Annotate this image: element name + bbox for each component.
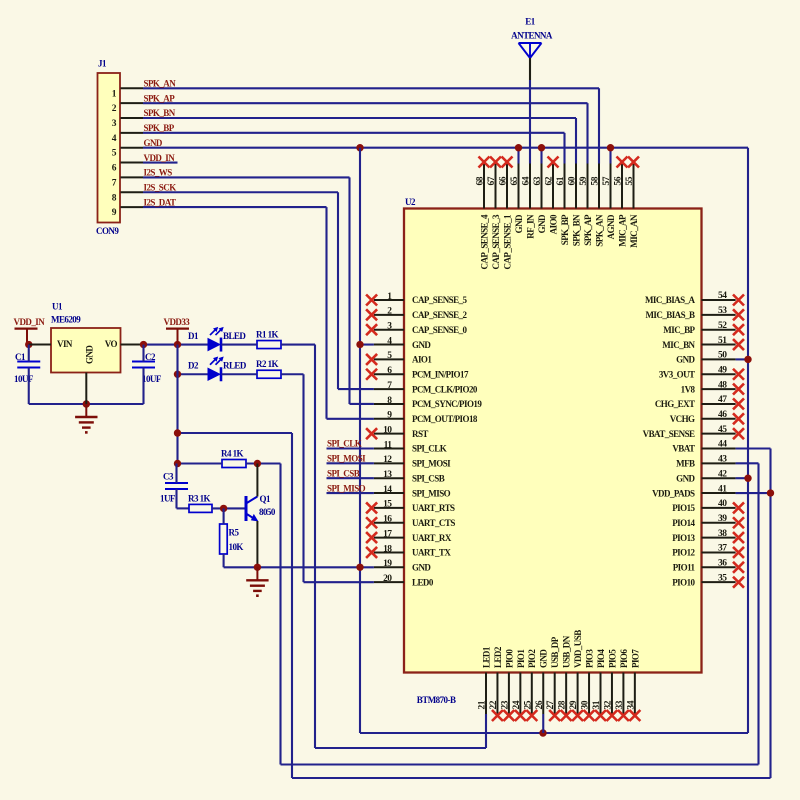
- svg-text:41: 41: [718, 484, 727, 494]
- svg-text:SPK_BN: SPK_BN: [571, 214, 581, 246]
- svg-text:UART_RTS: UART_RTS: [412, 503, 455, 513]
- svg-text:67: 67: [487, 176, 497, 185]
- svg-text:GND: GND: [85, 345, 95, 364]
- svg-text:34: 34: [626, 700, 636, 709]
- svg-text:8050: 8050: [259, 507, 276, 517]
- svg-text:25: 25: [523, 700, 533, 709]
- svg-text:CAP_SENSE_1: CAP_SENSE_1: [502, 214, 512, 270]
- svg-text:16: 16: [383, 515, 392, 525]
- svg-text:CAP_SENSE_2: CAP_SENSE_2: [412, 310, 468, 320]
- svg-text:28: 28: [558, 700, 568, 709]
- svg-text:48: 48: [718, 380, 727, 390]
- svg-text:PIO3: PIO3: [584, 649, 594, 668]
- svg-text:10UF: 10UF: [142, 374, 162, 384]
- svg-text:CAP_SENSE_4: CAP_SENSE_4: [479, 214, 489, 270]
- svg-text:VDD_USB: VDD_USB: [573, 630, 583, 668]
- svg-text:R3 1K: R3 1K: [188, 494, 211, 504]
- svg-text:PIO14: PIO14: [672, 518, 695, 528]
- svg-text:VDD_PADS: VDD_PADS: [652, 488, 695, 498]
- svg-text:52: 52: [718, 321, 727, 331]
- svg-text:PIO1: PIO1: [516, 649, 526, 668]
- svg-text:VBAT_SENSE: VBAT_SENSE: [643, 429, 695, 439]
- svg-text:GND: GND: [514, 214, 524, 233]
- svg-text:GND: GND: [537, 214, 547, 233]
- svg-text:R5: R5: [229, 528, 240, 538]
- svg-text:I2S_WS: I2S_WS: [144, 168, 173, 178]
- svg-text:VBAT: VBAT: [672, 444, 695, 454]
- svg-text:SPK_BN: SPK_BN: [144, 108, 176, 118]
- svg-text:24: 24: [512, 700, 522, 709]
- svg-text:AIO1: AIO1: [412, 355, 432, 365]
- svg-text:BTM870-B: BTM870-B: [417, 695, 456, 705]
- svg-text:10K: 10K: [229, 542, 244, 552]
- svg-text:17: 17: [383, 529, 392, 539]
- svg-text:64: 64: [522, 176, 532, 185]
- svg-text:LED0: LED0: [412, 577, 434, 587]
- svg-text:PIO11: PIO11: [673, 563, 696, 573]
- svg-text:11: 11: [384, 440, 393, 450]
- svg-text:UART_TX: UART_TX: [412, 548, 451, 558]
- svg-text:MIC_AN: MIC_AN: [629, 214, 639, 248]
- svg-text:GND: GND: [412, 340, 431, 350]
- svg-text:MIC_BIAS_A: MIC_BIAS_A: [645, 295, 696, 305]
- svg-text:21: 21: [478, 700, 488, 709]
- svg-text:RLED: RLED: [223, 360, 247, 370]
- svg-text:LED2: LED2: [493, 646, 503, 668]
- svg-text:27: 27: [546, 700, 556, 709]
- svg-text:SPI_MISO: SPI_MISO: [327, 483, 366, 493]
- svg-text:31: 31: [592, 700, 602, 709]
- svg-text:RST: RST: [412, 429, 428, 439]
- svg-text:PIO2: PIO2: [527, 649, 537, 668]
- svg-text:MIC_BN: MIC_BN: [662, 340, 695, 350]
- svg-text:E1: E1: [525, 17, 535, 27]
- svg-text:SPI_CLK: SPI_CLK: [412, 444, 447, 454]
- svg-text:RF_IN: RF_IN: [525, 214, 535, 239]
- svg-text:UART_CTS: UART_CTS: [412, 518, 455, 528]
- svg-text:AGND: AGND: [606, 214, 616, 239]
- svg-text:13: 13: [383, 470, 392, 480]
- svg-text:57: 57: [602, 176, 612, 185]
- svg-text:SPI_MOSI: SPI_MOSI: [412, 459, 451, 469]
- svg-text:61: 61: [556, 176, 566, 185]
- svg-text:CAP_SENSE_3: CAP_SENSE_3: [491, 214, 501, 270]
- svg-text:1V8: 1V8: [681, 384, 696, 394]
- svg-text:32: 32: [603, 700, 613, 709]
- svg-text:C1: C1: [15, 352, 26, 362]
- svg-text:PCM_CLK/PIO20: PCM_CLK/PIO20: [412, 384, 478, 394]
- svg-text:ANTENNA: ANTENNA: [511, 31, 553, 41]
- svg-text:47: 47: [718, 395, 727, 405]
- svg-text:15: 15: [383, 500, 392, 510]
- svg-text:I2S_DAT: I2S_DAT: [144, 197, 177, 207]
- svg-text:J1: J1: [98, 59, 107, 69]
- svg-text:MIC_AP: MIC_AP: [617, 214, 627, 247]
- svg-text:54: 54: [718, 291, 727, 301]
- svg-text:PIO7: PIO7: [630, 649, 640, 668]
- svg-text:U2: U2: [405, 197, 416, 207]
- svg-text:VDD_IN: VDD_IN: [144, 153, 176, 163]
- svg-text:33: 33: [615, 700, 625, 709]
- svg-text:C3: C3: [163, 472, 174, 482]
- svg-text:SPI_MISO: SPI_MISO: [412, 488, 451, 498]
- svg-text:55: 55: [625, 176, 635, 185]
- svg-text:I2S_SCK: I2S_SCK: [144, 182, 177, 192]
- svg-text:SPK_BP: SPK_BP: [560, 214, 570, 245]
- svg-text:CHG_EXT: CHG_EXT: [655, 399, 695, 409]
- svg-text:PIO4: PIO4: [596, 649, 606, 668]
- svg-text:USB_DN: USB_DN: [562, 635, 572, 668]
- svg-text:49: 49: [718, 365, 727, 375]
- svg-text:3V3_OUT: 3V3_OUT: [659, 369, 695, 379]
- svg-text:51: 51: [718, 336, 727, 346]
- svg-text:40: 40: [718, 499, 727, 509]
- svg-text:29: 29: [569, 700, 579, 709]
- svg-text:63: 63: [533, 176, 543, 185]
- svg-text:SPI_MOSI: SPI_MOSI: [327, 454, 366, 464]
- svg-text:PCM_SYNC/PIO19: PCM_SYNC/PIO19: [412, 399, 482, 409]
- svg-text:R4 1K: R4 1K: [221, 448, 244, 458]
- svg-text:PIO15: PIO15: [672, 503, 695, 513]
- svg-text:46: 46: [718, 410, 727, 420]
- svg-text:ME6209: ME6209: [51, 315, 81, 325]
- svg-text:PCM_IN/PIO17: PCM_IN/PIO17: [412, 369, 469, 379]
- svg-text:GND: GND: [144, 138, 163, 148]
- svg-text:35: 35: [718, 573, 727, 583]
- svg-text:53: 53: [718, 306, 727, 316]
- svg-text:AIO0: AIO0: [548, 214, 558, 234]
- svg-text:BLED: BLED: [223, 331, 246, 341]
- svg-text:PIO10: PIO10: [672, 577, 695, 587]
- svg-text:19: 19: [383, 559, 392, 569]
- svg-text:14: 14: [383, 485, 392, 495]
- svg-text:LED1: LED1: [481, 646, 491, 668]
- svg-text:56: 56: [614, 176, 624, 185]
- svg-text:36: 36: [718, 559, 727, 569]
- svg-text:38: 38: [718, 529, 727, 539]
- svg-text:50: 50: [718, 351, 727, 361]
- svg-text:VIN: VIN: [57, 339, 73, 349]
- svg-text:20: 20: [383, 574, 392, 584]
- svg-text:PIO13: PIO13: [672, 533, 695, 543]
- svg-text:1UF: 1UF: [160, 494, 176, 504]
- svg-text:Q1: Q1: [260, 494, 271, 504]
- svg-text:PIO12: PIO12: [672, 548, 695, 558]
- svg-text:SPK_AN: SPK_AN: [144, 79, 177, 89]
- svg-text:43: 43: [718, 455, 727, 465]
- svg-text:MFB: MFB: [676, 459, 695, 469]
- svg-text:12: 12: [383, 455, 392, 465]
- svg-text:VCHG: VCHG: [670, 414, 695, 424]
- svg-text:GND: GND: [676, 355, 695, 365]
- svg-text:SPK_AP: SPK_AP: [583, 214, 593, 246]
- svg-text:SPI_CLK: SPI_CLK: [327, 439, 362, 449]
- svg-text:65: 65: [510, 176, 520, 185]
- svg-text:GND: GND: [676, 473, 695, 483]
- svg-text:CAP_SENSE_5: CAP_SENSE_5: [412, 295, 468, 305]
- svg-text:37: 37: [718, 544, 727, 554]
- svg-text:59: 59: [579, 176, 589, 185]
- svg-text:R1 1K: R1 1K: [256, 329, 279, 339]
- svg-text:58: 58: [591, 176, 601, 185]
- svg-text:D1: D1: [188, 331, 199, 341]
- svg-text:42: 42: [718, 469, 727, 479]
- svg-text:MIC_BP: MIC_BP: [663, 325, 695, 335]
- svg-text:10: 10: [383, 425, 392, 435]
- svg-text:GND: GND: [412, 563, 431, 573]
- svg-text:SPI_CSB: SPI_CSB: [412, 473, 445, 483]
- svg-text:VDD_IN: VDD_IN: [14, 317, 46, 327]
- svg-text:30: 30: [581, 700, 591, 709]
- svg-text:10UF: 10UF: [14, 374, 34, 384]
- svg-text:26: 26: [535, 700, 545, 709]
- svg-text:PIO0: PIO0: [504, 649, 514, 668]
- svg-text:39: 39: [718, 514, 727, 524]
- svg-text:SPK_AN: SPK_AN: [594, 214, 604, 247]
- svg-text:U1: U1: [52, 302, 63, 312]
- svg-text:68: 68: [476, 176, 486, 185]
- svg-text:18: 18: [383, 544, 392, 554]
- svg-text:UART_RX: UART_RX: [412, 533, 452, 543]
- svg-text:CAP_SENSE_0: CAP_SENSE_0: [412, 325, 468, 335]
- svg-text:44: 44: [718, 440, 727, 450]
- svg-text:22: 22: [489, 700, 499, 709]
- svg-text:CON9: CON9: [96, 226, 119, 236]
- svg-text:C2: C2: [145, 352, 156, 362]
- svg-text:60: 60: [568, 176, 578, 185]
- svg-text:45: 45: [718, 425, 727, 435]
- svg-text:23: 23: [500, 700, 510, 709]
- svg-text:PCM_OUT/PIO18: PCM_OUT/PIO18: [412, 414, 478, 424]
- svg-text:D2: D2: [188, 360, 199, 370]
- svg-text:SPI_CSB: SPI_CSB: [327, 468, 360, 478]
- svg-text:VDD33: VDD33: [164, 317, 191, 327]
- svg-text:MIC_BIAS_B: MIC_BIAS_B: [645, 310, 695, 320]
- svg-text:GND: GND: [539, 649, 549, 668]
- svg-text:VO: VO: [105, 339, 118, 349]
- svg-text:66: 66: [499, 176, 509, 185]
- svg-text:PIO6: PIO6: [619, 649, 629, 668]
- svg-text:SPK_BP: SPK_BP: [144, 123, 175, 133]
- svg-text:R2 1K: R2 1K: [256, 359, 279, 369]
- svg-text:62: 62: [545, 176, 555, 185]
- svg-text:SPK_AP: SPK_AP: [144, 93, 176, 103]
- svg-text:PIO5: PIO5: [607, 649, 617, 668]
- svg-text:USB_DP: USB_DP: [550, 636, 560, 668]
